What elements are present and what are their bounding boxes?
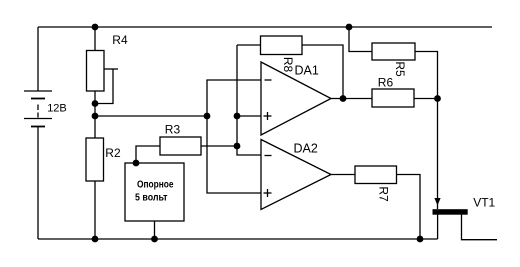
wire DA1+ stub <box>237 115 261 117</box>
junction dot R5-R6 output node <box>434 95 441 102</box>
wire R4 wiper to node <box>95 69 113 104</box>
wire top bus <box>38 26 492 28</box>
wire DA2 output to R7 <box>331 174 355 176</box>
svg-text:R8: R8 <box>281 57 295 73</box>
svg-text:R6: R6 <box>378 76 394 90</box>
resistor R7 body <box>355 166 397 184</box>
wire R6 right <box>414 98 438 100</box>
junction dot reference box top <box>133 160 140 167</box>
DA1 minus sign <box>265 79 272 81</box>
junction dot net 237/116 <box>234 113 241 120</box>
DA2 minus sign <box>265 155 272 157</box>
junction dot net 237/146 <box>234 143 241 150</box>
resistor R2 body <box>86 138 104 181</box>
svg-text:R7: R7 <box>377 186 391 202</box>
wire reference box bottom to bus <box>154 221 156 239</box>
junction dot R4 wiper node <box>92 100 99 107</box>
battery GB1 cell1 short plate <box>31 98 45 100</box>
transistor VT1 source leg right to output <box>462 215 498 240</box>
op-amp DA1 triangle <box>261 62 331 135</box>
wire vertical net reference DA1+/DA2- <box>237 45 261 155</box>
battery GB1 cell2 long plate <box>24 118 52 120</box>
wire vertical net DA1- / DA2+ <box>207 80 261 193</box>
junction dot net 207/116 <box>204 113 211 120</box>
svg-text:VT1: VT1 <box>473 195 495 209</box>
junction dot divider node <box>92 113 99 120</box>
transistor VT1 body bar <box>433 209 468 215</box>
DA1 plus sign <box>264 115 272 117</box>
transistor VT1 drain leg left <box>437 215 439 240</box>
battery GB1 dashed link <box>37 105 39 111</box>
junction dot bus / reference box <box>151 236 158 243</box>
wire top bus to R4 <box>94 27 96 51</box>
wire output node down to VT1 gate <box>437 99 439 210</box>
svg-text:5 вольт: 5 вольт <box>135 193 168 204</box>
op-amp DA2 triangle <box>261 140 331 210</box>
VT1 gate arrow <box>434 198 440 206</box>
R4 wiper tap <box>104 68 118 70</box>
wire R3 left to reference box <box>136 146 160 163</box>
wire R8 left <box>237 44 261 46</box>
svg-text:R4: R4 <box>112 33 128 47</box>
svg-text:R2: R2 <box>105 146 121 160</box>
wire R3 right to reference net <box>201 145 237 147</box>
battery GB1 cell2 short plate <box>31 126 45 128</box>
wire left vertical lower <box>37 127 39 240</box>
svg-text:Опорное: Опорное <box>137 180 174 191</box>
resistor R6 body <box>372 89 414 107</box>
wire left vertical upper <box>37 27 39 91</box>
svg-text:R5: R5 <box>393 61 407 77</box>
reference source box <box>125 163 184 221</box>
svg-text:R3: R3 <box>165 123 181 137</box>
svg-text:DA1: DA1 <box>295 64 319 78</box>
junction dot top bus / R4 <box>92 24 99 31</box>
resistor R5 body <box>372 43 415 60</box>
resistor R3 body <box>160 137 201 155</box>
wire top bus to R5 <box>349 27 372 52</box>
wire R2 bottom to bus <box>94 181 96 239</box>
svg-text:DA2: DA2 <box>294 141 318 155</box>
wire R5 right down to output node <box>415 52 438 99</box>
wire R4 bottom to R2 top <box>94 91 96 138</box>
wire divider node to comparator <box>95 115 207 117</box>
wire bottom bus <box>38 238 438 240</box>
junction dot bus / R7 <box>417 236 424 243</box>
resistor R8 body <box>261 36 303 55</box>
junction dot bus / R2 <box>92 236 99 243</box>
junction dot R8 feedback / DA1 out <box>340 95 347 102</box>
wire DA1 output to R6 <box>331 98 372 100</box>
battery GB1 cell1 long plate <box>24 90 52 92</box>
resistor R4 body <box>87 51 105 92</box>
wire R7 right down to bus <box>397 175 421 240</box>
wire R8 right to output node <box>302 45 343 99</box>
junction dot top bus / R5 feed <box>346 24 353 31</box>
DA2 plus sign <box>264 192 272 194</box>
svg-text:12В: 12В <box>47 103 67 115</box>
